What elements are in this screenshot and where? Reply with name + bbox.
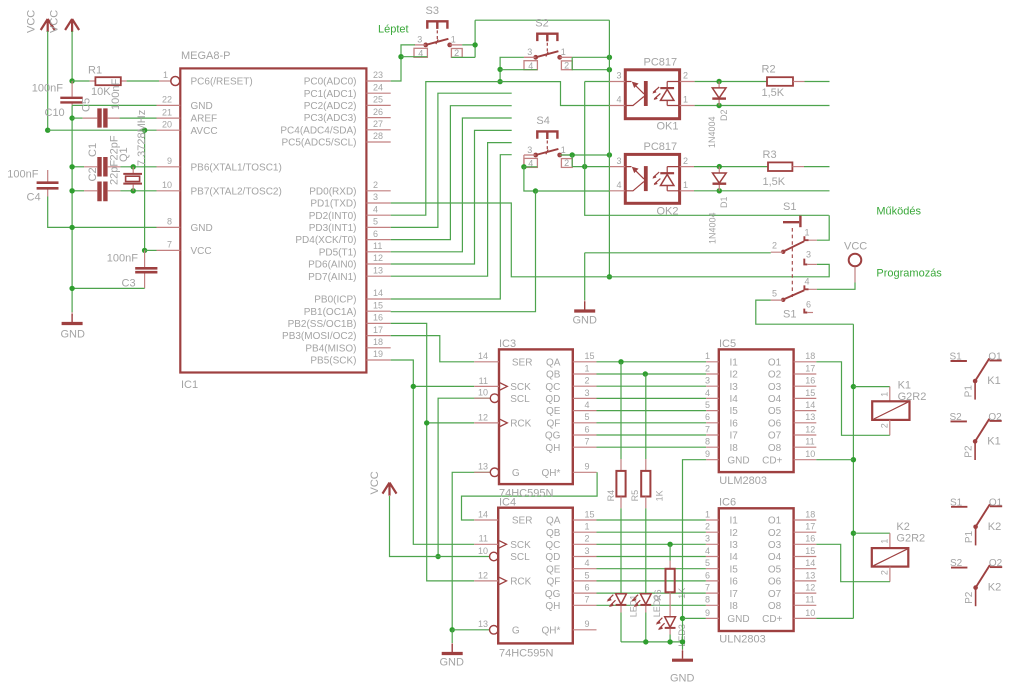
wire C3 to gnd line [72, 287, 145, 289]
svg-text:C2: C2 [87, 167, 99, 181]
wire S2 pin3 left and down [500, 57, 524, 81]
svg-text:C1: C1 [87, 143, 99, 157]
node row9 left [69, 164, 74, 169]
supply VCC symbol 1 [26, 10, 55, 33]
svg-text:1N4004: 1N4004 [707, 116, 717, 148]
switch S4 [524, 115, 572, 169]
svg-text:4: 4 [705, 546, 710, 556]
node common to PD1 [607, 274, 612, 279]
svg-text:1: 1 [705, 509, 710, 519]
svg-text:O2: O2 [768, 370, 782, 381]
svg-text:O2: O2 [989, 558, 1003, 569]
node C3 gnd [69, 286, 74, 291]
svg-text:27: 27 [373, 119, 383, 129]
relay contact K1 pole1 [950, 352, 1003, 400]
svg-text:5: 5 [585, 570, 590, 580]
supply VCC arrow mid [369, 471, 397, 495]
svg-text:2: 2 [879, 423, 889, 428]
svg-text:2: 2 [772, 240, 777, 250]
svg-text:QH: QH [545, 601, 560, 612]
svg-text:K1: K1 [898, 380, 911, 392]
svg-text:16: 16 [373, 313, 383, 323]
svg-text:I5: I5 [730, 406, 739, 417]
wire S3 right up and over [452, 20, 610, 57]
svg-text:14: 14 [805, 558, 815, 568]
wire OK1 pin1 row [695, 105, 830, 107]
svg-text:MEGA8-P: MEGA8-P [181, 50, 231, 62]
svg-text:QD: QD [545, 552, 560, 563]
svg-text:2: 2 [373, 180, 378, 190]
switch S2 [524, 17, 572, 71]
svg-text:VCC: VCC [191, 246, 212, 257]
svg-text:3: 3 [705, 534, 710, 544]
svg-text:5: 5 [705, 558, 710, 568]
svg-text:3: 3 [806, 250, 811, 260]
svg-text:K2: K2 [988, 521, 1001, 533]
svg-text:12: 12 [805, 424, 815, 434]
svg-text:PB0(ICP): PB0(ICP) [314, 295, 356, 306]
svg-text:Q1: Q1 [118, 147, 130, 162]
svg-text:22: 22 [162, 95, 172, 105]
node R4 tap [618, 359, 623, 364]
svg-text:4: 4 [585, 558, 590, 568]
svg-text:15: 15 [805, 546, 815, 556]
svg-text:12: 12 [478, 570, 488, 580]
node S2 pin4 [497, 67, 502, 72]
svg-text:6: 6 [705, 570, 710, 580]
svg-text:100nF: 100nF [7, 169, 38, 181]
wire QH* IC3 to SER IC4 [462, 472, 598, 520]
svg-text:5: 5 [585, 412, 590, 422]
svg-text:14: 14 [805, 400, 815, 410]
svg-text:18: 18 [805, 351, 815, 361]
svg-text:74HC595N: 74HC595N [499, 648, 553, 660]
svg-text:S1: S1 [783, 308, 796, 320]
svg-text:ULN2803: ULN2803 [719, 634, 765, 646]
svg-text:7: 7 [585, 595, 590, 605]
wire G IC4 [452, 629, 489, 631]
optocoupler OK2 [616, 141, 688, 217]
wire PD4 route [391, 106, 512, 240]
svg-text:100nF: 100nF [107, 253, 138, 265]
node AVCC crystal branch [142, 128, 147, 133]
svg-text:C4: C4 [27, 192, 41, 204]
pin names IC1 left [191, 77, 282, 257]
svg-text:8: 8 [705, 437, 710, 447]
svg-text:I6: I6 [730, 418, 739, 429]
node K1 coil tap [851, 384, 856, 389]
svg-text:13: 13 [478, 462, 488, 472]
svg-text:8: 8 [705, 595, 710, 605]
svg-text:PC817: PC817 [644, 56, 678, 68]
crystal Q1 [118, 110, 148, 191]
svg-text:11: 11 [479, 376, 488, 386]
svg-text:S4: S4 [536, 115, 549, 127]
svg-text:O1: O1 [988, 352, 1002, 363]
svg-text:O2: O2 [768, 528, 782, 539]
svg-text:1,5K: 1,5K [763, 176, 786, 188]
svg-text:I2: I2 [730, 370, 739, 381]
svg-text:IC5: IC5 [719, 338, 736, 350]
svg-text:Működés: Működés [876, 206, 921, 218]
svg-text:GND: GND [191, 223, 213, 234]
svg-text:S2: S2 [950, 558, 963, 569]
svg-text:6: 6 [806, 300, 811, 310]
svg-text:2: 2 [705, 363, 710, 373]
node R6 tap [667, 542, 672, 547]
svg-text:CD+: CD+ [762, 455, 782, 466]
svg-text:O7: O7 [768, 589, 782, 600]
svg-text:SCL: SCL [510, 394, 530, 405]
svg-text:PB7(XTAL2/TOSC2): PB7(XTAL2/TOSC2) [191, 186, 282, 197]
svg-text:PC6(/RESET): PC6(/RESET) [191, 77, 253, 88]
svg-text:QE: QE [546, 564, 561, 575]
svg-text:10: 10 [805, 608, 815, 618]
svg-text:AREF: AREF [191, 114, 218, 125]
svg-text:PB3(MOSI/OC2): PB3(MOSI/OC2) [282, 331, 356, 342]
svg-text:10: 10 [805, 449, 815, 459]
supply VCC symbol 2 [49, 10, 80, 33]
svg-text:1,5K: 1,5K [762, 87, 785, 99]
svg-text:QA: QA [546, 516, 561, 527]
svg-text:PC2(ADC2): PC2(ADC2) [304, 101, 357, 112]
svg-text:21: 21 [162, 107, 172, 117]
pin numbers IC1 left [162, 95, 172, 250]
ground symbol left [61, 312, 86, 340]
wire row22 GND [72, 104, 156, 106]
pin stubs OK2 [609, 167, 694, 191]
svg-text:2: 2 [683, 71, 688, 81]
svg-text:19: 19 [373, 349, 383, 359]
svg-text:1: 1 [705, 351, 710, 361]
node led bus gnd [680, 639, 685, 644]
wire row9 to pin9 [120, 166, 156, 168]
wire PD1 route [391, 203, 830, 277]
svg-text:P1: P1 [964, 385, 975, 398]
svg-text:O8: O8 [768, 443, 782, 454]
wire VCC1 vertical [47, 31, 49, 130]
svg-text:6: 6 [373, 229, 378, 239]
svg-text:LED2: LED2 [652, 595, 662, 618]
svg-text:QH*: QH* [541, 468, 560, 479]
svg-text:QC: QC [545, 540, 560, 551]
svg-text:I4: I4 [730, 394, 739, 405]
svg-text:SCL: SCL [510, 552, 530, 563]
svg-text:R2: R2 [762, 64, 776, 76]
pin names IC1 right [280, 77, 356, 367]
svg-text:1: 1 [683, 95, 688, 105]
svg-text:PD7(AIN1): PD7(AIN1) [308, 272, 356, 283]
svg-text:3: 3 [373, 192, 378, 202]
svg-text:QH: QH [545, 443, 560, 454]
svg-text:7: 7 [705, 583, 710, 593]
ic IC3 74HC595N body [474, 338, 596, 500]
wire S4 left down to row191 [524, 167, 536, 191]
svg-text:GND: GND [573, 315, 598, 327]
svg-text:13: 13 [805, 570, 815, 580]
svg-text:K2: K2 [896, 521, 909, 533]
supply VCC circle [844, 240, 867, 266]
svg-text:1: 1 [683, 180, 688, 190]
wire VCC circle to S1 pin4 [854, 267, 856, 283]
svg-text:20: 20 [162, 119, 172, 129]
resistor R5 [630, 374, 664, 508]
wire common vertical right [608, 20, 610, 277]
relay contact K1 pole2 [950, 412, 1003, 460]
svg-text:QA: QA [546, 357, 561, 368]
node S4 net OK2pin4 [533, 188, 538, 193]
capacitor C10 [32, 81, 83, 119]
svg-text:6: 6 [585, 583, 590, 593]
node IC6 gnd [680, 616, 685, 621]
svg-text:S2: S2 [535, 17, 548, 29]
svg-text:PC0(ADC0): PC0(ADC0) [304, 77, 357, 88]
svg-text:I3: I3 [730, 540, 739, 551]
wire IC6 pin9 [683, 617, 706, 619]
svg-text:28: 28 [373, 131, 383, 141]
svg-text:14: 14 [373, 288, 383, 298]
node SCL join [435, 554, 440, 559]
svg-text:VCC: VCC [49, 10, 61, 33]
svg-text:QG: QG [545, 589, 561, 600]
resistor R3 [763, 149, 805, 188]
svg-text:6: 6 [585, 424, 590, 434]
wire G to gnd [451, 630, 453, 643]
svg-text:PC3(ADC3): PC3(ADC3) [304, 113, 357, 124]
svg-text:P1: P1 [964, 530, 975, 543]
svg-text:PB6(XTAL1/TOSC1): PB6(XTAL1/TOSC1) [191, 162, 282, 173]
svg-text:PD6(AIN0): PD6(AIN0) [308, 260, 356, 271]
node G join [450, 627, 455, 632]
svg-text:6: 6 [705, 412, 710, 422]
capacitor C2 [72, 160, 120, 202]
svg-text:O8: O8 [768, 601, 782, 612]
svg-text:14: 14 [478, 509, 488, 519]
optocoupler OK1 [616, 56, 688, 132]
svg-text:QH*: QH* [541, 625, 560, 636]
resistor R2 [762, 64, 805, 99]
svg-text:CD+: CD+ [762, 614, 782, 625]
svg-text:QG: QG [545, 431, 561, 442]
svg-text:O3: O3 [768, 382, 782, 393]
wire S4 pin1 down to OK2 pin3 row [572, 155, 609, 167]
wire R3 right [804, 166, 830, 168]
svg-text:3: 3 [616, 156, 621, 166]
svg-text:PD0(RXD): PD0(RXD) [309, 186, 356, 197]
node K2 coil tap [851, 531, 856, 536]
svg-text:QD: QD [545, 394, 560, 405]
svg-text:ULM2803: ULM2803 [719, 475, 767, 487]
svg-text:3: 3 [616, 71, 621, 81]
wire S1 pin2 to ground [585, 253, 771, 300]
SECTION: power/left [7, 10, 159, 341]
wire PB3 to SER IC3 [391, 336, 475, 362]
wire S1 pin5 to relay rail [756, 300, 854, 324]
wire OK2 pin2 row [694, 166, 768, 168]
svg-text:9: 9 [585, 462, 590, 472]
capacitor C4 [7, 169, 58, 204]
svg-text:25: 25 [373, 95, 383, 105]
capacitor C5 [72, 79, 122, 128]
node gnd row line2 [69, 225, 74, 230]
svg-text:O1: O1 [989, 497, 1003, 508]
svg-text:2: 2 [585, 376, 590, 386]
svg-text:24: 24 [373, 82, 383, 92]
wire SCL net IC3 down [438, 398, 490, 556]
node IC5 CD+ tap [851, 457, 856, 462]
SECTION: drivers and relays [705, 324, 1003, 645]
pins IC1 right stubs [366, 81, 390, 360]
resistor R6 [653, 544, 687, 617]
node row9 crystal [131, 164, 136, 169]
node D2 bottom [716, 103, 721, 108]
relay contact K2 pole2 [950, 558, 1003, 606]
diode D2 1N4004 [707, 82, 729, 149]
svg-text:S1: S1 [950, 352, 963, 363]
svg-text:RCK: RCK [510, 577, 531, 588]
resistor R4 [606, 362, 626, 509]
svg-text:I7: I7 [730, 431, 739, 442]
switch S3 [414, 5, 462, 59]
pins IC1 left stubs [157, 105, 181, 250]
svg-text:O6: O6 [768, 577, 782, 588]
svg-text:I3: I3 [730, 382, 739, 393]
svg-text:P2: P2 [964, 591, 975, 604]
svg-text:GND: GND [670, 673, 695, 684]
svg-text:PB5(SCK): PB5(SCK) [310, 356, 356, 367]
svg-text:13: 13 [373, 265, 383, 275]
svg-text:R5: R5 [630, 490, 640, 502]
wire R2 right [805, 81, 830, 83]
svg-text:SCK: SCK [510, 540, 531, 551]
svg-text:D2: D2 [719, 109, 729, 121]
svg-text:QC: QC [545, 382, 560, 393]
svg-text:8: 8 [167, 217, 172, 227]
node S2 right bottom [607, 67, 612, 72]
node LED3 bus [667, 639, 672, 644]
svg-text:18: 18 [805, 509, 815, 519]
node VCC2-R1 [69, 78, 74, 83]
wire IC5 CD+ [816, 459, 853, 461]
svg-text:G2R2: G2R2 [896, 532, 925, 544]
wire AVCC to VCC vertical [144, 130, 146, 250]
svg-text:7: 7 [167, 240, 172, 250]
SECTION: S1 area [756, 201, 943, 324]
svg-text:PD1(TXD): PD1(TXD) [310, 199, 356, 210]
svg-text:S1: S1 [950, 497, 963, 508]
wire OK1 pin2 row [695, 81, 767, 83]
node LED2 bus [643, 639, 648, 644]
svg-text:PB4(MISO): PB4(MISO) [305, 343, 356, 354]
wire VCC to SCL IC4 [390, 496, 490, 557]
wire K2 pin2 to IC6 O3 [816, 544, 890, 581]
wire PD5 route [391, 118, 512, 252]
svg-text:SER: SER [512, 516, 533, 527]
svg-text:9: 9 [585, 619, 590, 629]
svg-text:22pF: 22pF [109, 160, 121, 185]
svg-text:C3: C3 [122, 278, 136, 290]
wire C5 to pin21 [120, 117, 157, 119]
led LED2 [631, 508, 662, 642]
svg-text:PD2(INT0): PD2(INT0) [309, 211, 357, 222]
svg-text:PC4(ADC4/SDA): PC4(ADC4/SDA) [280, 125, 356, 136]
node S3 left [398, 54, 403, 59]
svg-text:3: 3 [585, 546, 590, 556]
svg-text:1: 1 [879, 392, 889, 397]
node SCK branch [411, 384, 416, 389]
svg-text:12: 12 [478, 412, 488, 422]
node S2 right top [607, 55, 612, 60]
switch S1 dpdt [771, 201, 817, 320]
svg-text:9: 9 [167, 156, 172, 166]
SECTION: mcu IC1 [157, 50, 391, 391]
svg-text:12: 12 [373, 253, 383, 263]
svg-text:PD4(XCK/T0): PD4(XCK/T0) [295, 235, 356, 246]
svg-text:I2: I2 [730, 528, 739, 539]
svg-text:2: 2 [585, 534, 590, 544]
wire opto common down to S1 pin1 [585, 82, 829, 216]
svg-text:O3: O3 [768, 540, 782, 551]
svg-text:11: 11 [373, 241, 382, 251]
pin S4.3 bent stub [523, 155, 525, 167]
svg-text:13: 13 [805, 412, 815, 422]
wire PD7 route [391, 143, 512, 277]
wire OK2 pin1 row [694, 190, 830, 192]
svg-text:10: 10 [162, 180, 172, 190]
node S3 right [472, 42, 477, 47]
svg-text:4: 4 [616, 95, 621, 105]
svg-text:Programozás: Programozás [876, 268, 942, 280]
wire PB5 to SCK both [391, 360, 475, 544]
svg-text:C5: C5 [81, 98, 93, 112]
svg-text:O5: O5 [768, 564, 782, 575]
svg-text:PC5(ADC5/SCL): PC5(ADC5/SCL) [281, 138, 356, 149]
svg-text:O6: O6 [768, 418, 782, 429]
svg-text:13: 13 [478, 619, 488, 629]
svg-text:QB: QB [546, 370, 561, 381]
svg-text:18: 18 [373, 337, 383, 347]
wire S4 to OK2 pin4 [536, 190, 610, 192]
svg-text:PB2(SS/OC1B): PB2(SS/OC1B) [288, 319, 357, 330]
wire IC6 CD+ [816, 617, 853, 619]
wire PB2 to RCK both [391, 323, 475, 581]
node D1 top [717, 164, 722, 169]
svg-text:AVCC: AVCC [191, 126, 218, 137]
wire GND left vertical (line2) [71, 105, 73, 227]
svg-text:O5: O5 [768, 406, 782, 417]
svg-text:QE: QE [546, 406, 561, 417]
svg-text:9: 9 [705, 608, 710, 618]
svg-text:Léptet: Léptet [378, 23, 409, 35]
wire PD2 route [391, 82, 610, 216]
svg-text:I4: I4 [730, 552, 739, 563]
ground symbol below S4 [573, 300, 598, 326]
svg-text:15: 15 [585, 509, 595, 519]
svg-text:OK2: OK2 [657, 205, 679, 217]
svg-text:5: 5 [772, 289, 777, 299]
node C5 left [69, 115, 74, 120]
svg-text:IC4: IC4 [499, 497, 516, 509]
svg-text:G2R2: G2R2 [898, 391, 927, 403]
svg-text:15: 15 [805, 388, 815, 398]
svg-text:I7: I7 [730, 589, 739, 600]
svg-text:16: 16 [805, 534, 815, 544]
SECTION: top switches and optos [378, 5, 830, 327]
svg-text:O2: O2 [988, 412, 1002, 423]
led LED1 [607, 508, 639, 642]
svg-text:VCC: VCC [26, 10, 38, 33]
svg-text:16: 16 [805, 376, 815, 386]
